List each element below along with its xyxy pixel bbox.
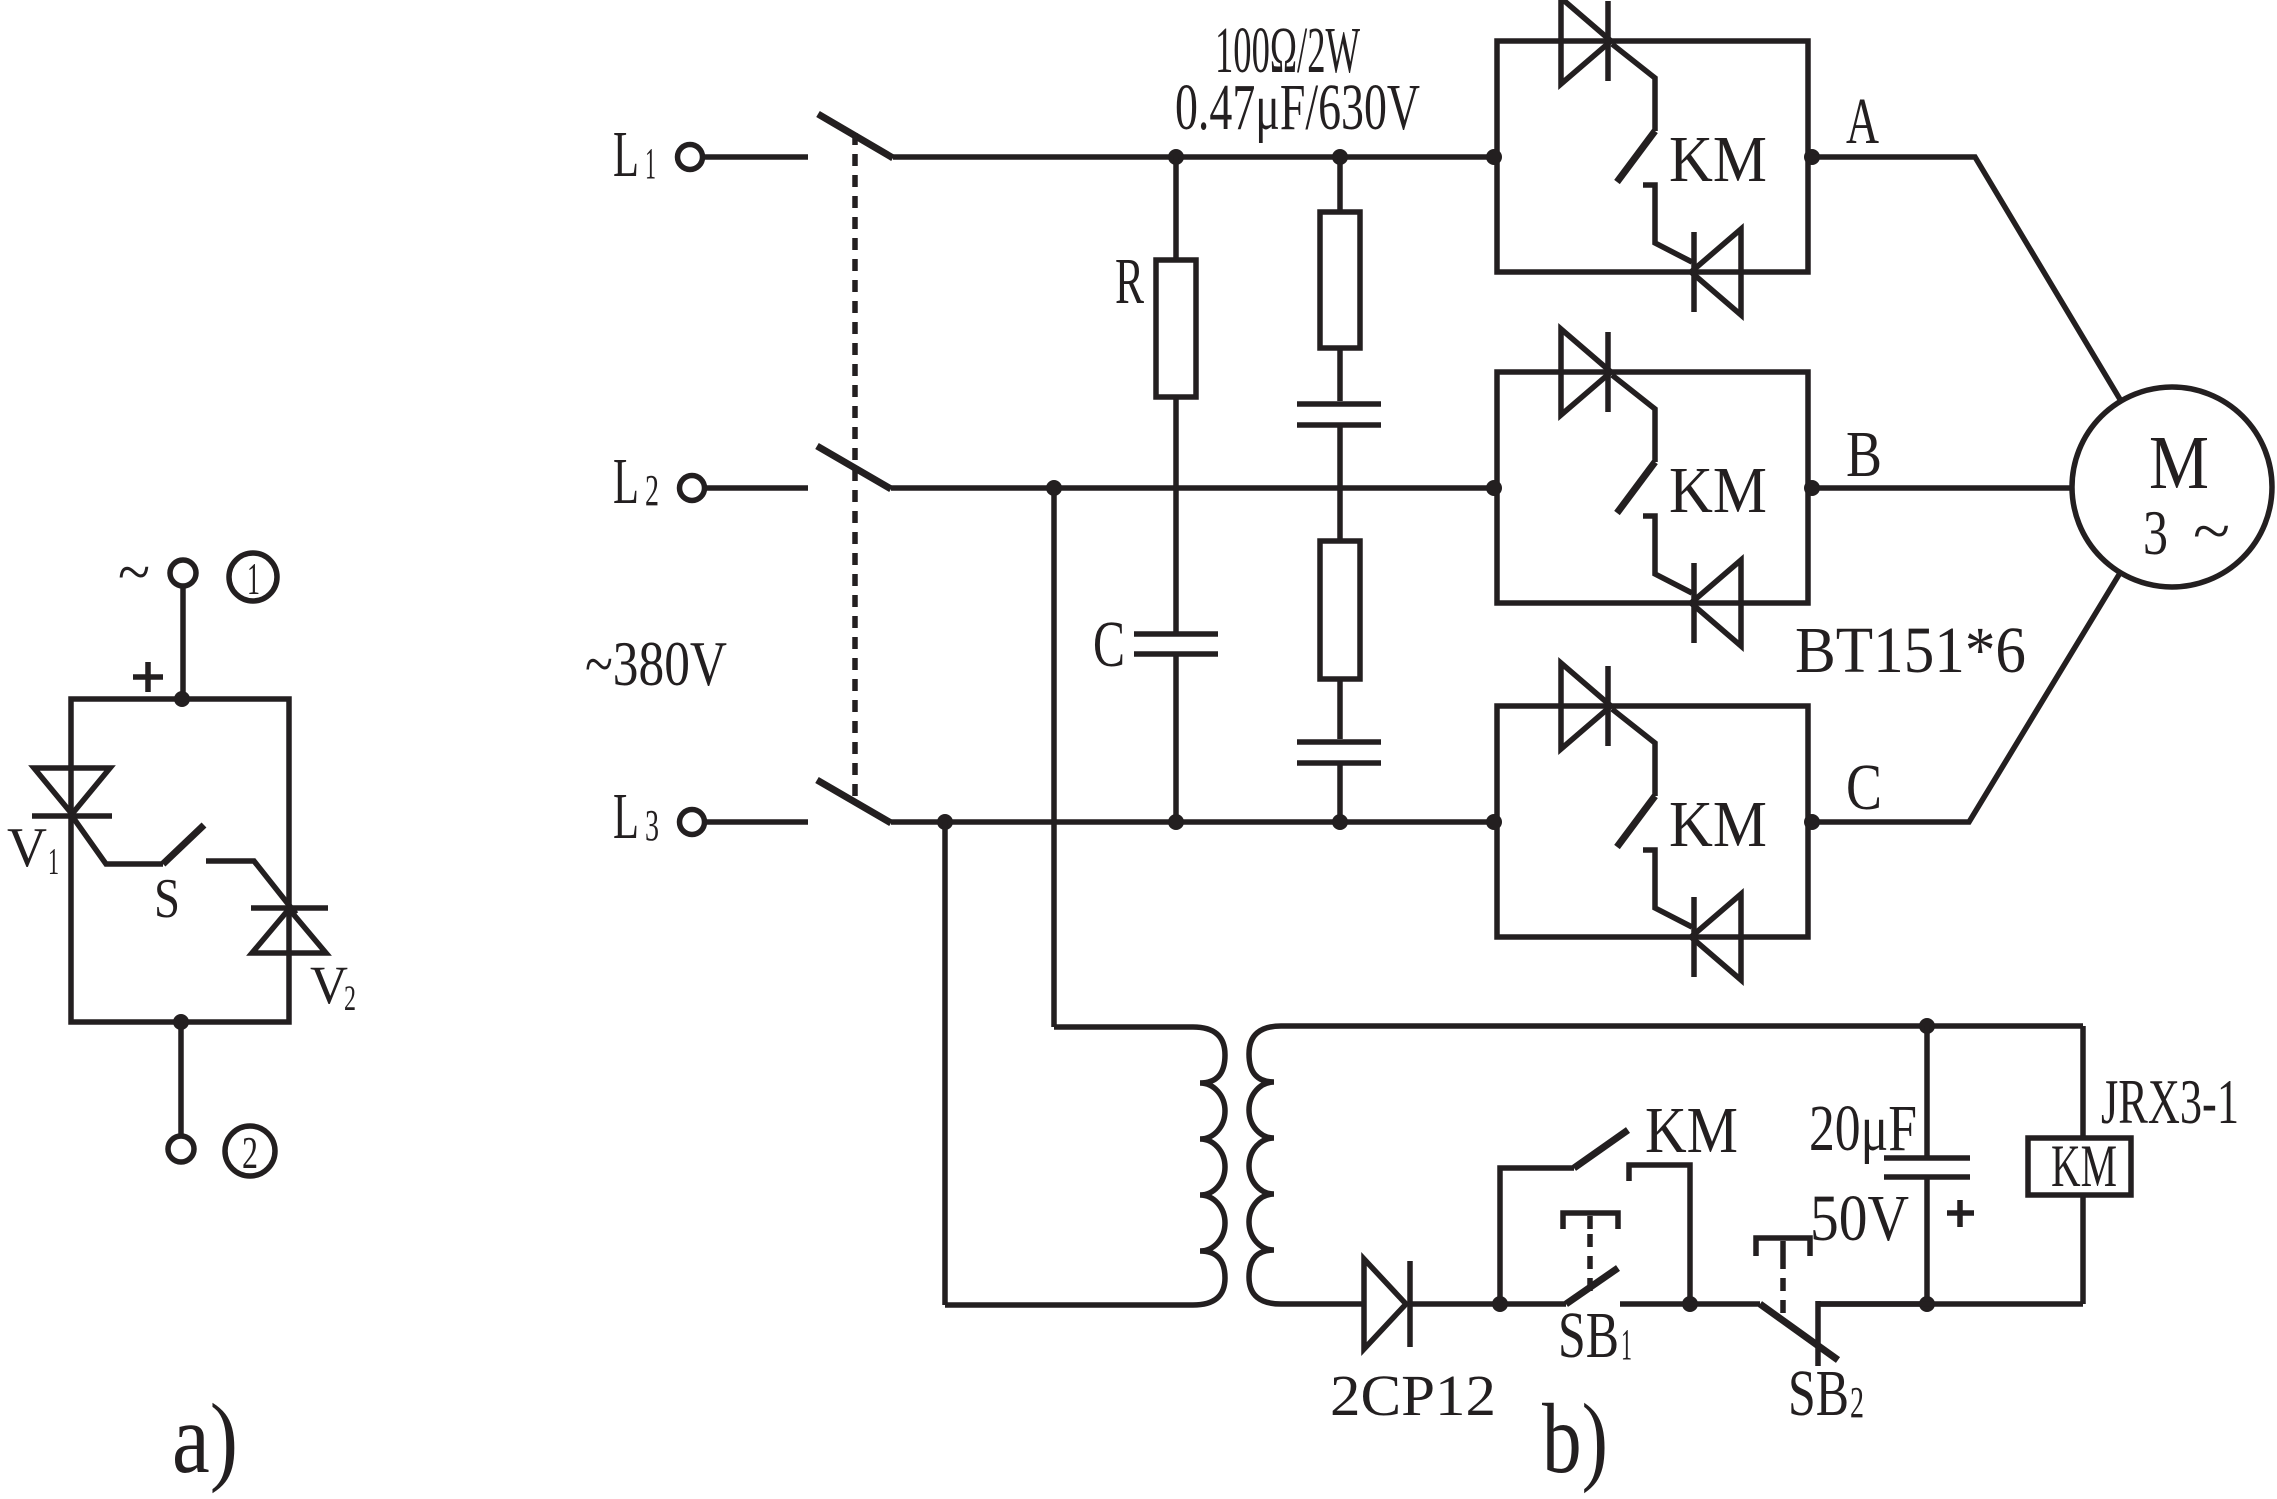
node dot aux branch left — [1492, 1296, 1508, 1312]
svg-text:~: ~ — [2193, 496, 2230, 566]
thyristor VT5 forward — [1561, 663, 1611, 749]
transformer secondary winding and control top rail — [1249, 1026, 2083, 1304]
relay coil KM box — [2028, 1133, 2131, 1199]
svg-text:2CP12: 2CP12 — [1330, 1363, 1496, 1428]
svg-text:1: 1 — [1621, 1320, 1632, 1369]
terminal 2 circle — [168, 1136, 194, 1162]
wire L1 switch to block A — [893, 154, 1497, 160]
wire terminal1 to box top — [180, 586, 186, 699]
label L2 — [613, 445, 659, 518]
svg-text:KM: KM — [1669, 454, 1767, 527]
thyristor V2 — [251, 908, 328, 953]
svg-text:0.47μF/630V: 0.47μF/630V — [1175, 71, 1420, 144]
node dot block C left — [1486, 814, 1502, 830]
thyristor VT1 forward — [1561, 0, 1611, 84]
node dot block B left — [1486, 480, 1502, 496]
svg-text:b): b) — [1542, 1383, 1608, 1494]
switch QS pole 3 blade — [817, 780, 891, 823]
terminal L1 circle — [678, 145, 703, 170]
svg-text:20μF: 20μF — [1809, 1092, 1917, 1165]
label 3~ — [2143, 496, 2230, 568]
wire diode to SB1 — [1408, 1301, 1566, 1307]
node dot cap top — [1919, 1018, 1935, 1034]
node dot branch2-L3 — [1332, 814, 1348, 830]
svg-text:~: ~ — [118, 536, 150, 607]
capacitor 20uF electrolytic — [1884, 1026, 1970, 1304]
wire VT3 gate — [1612, 375, 1655, 462]
switch linkage dashed line — [852, 133, 858, 797]
capacitor C plates — [1134, 634, 1218, 654]
svg-text:2: 2 — [645, 466, 659, 515]
node dot branch1-L3 — [1168, 814, 1184, 830]
node dot L2 transformer tap — [1046, 480, 1062, 496]
svg-text:1: 1 — [645, 139, 656, 188]
switch QS pole 2 blade — [817, 446, 891, 489]
node junction dot top — [174, 691, 190, 707]
wire box loop — [71, 699, 289, 1022]
wire KM contact lower lead A — [1643, 185, 1692, 262]
thyristor VT6 reverse — [1691, 894, 1741, 980]
wire KM contact lower lead C — [1643, 850, 1692, 927]
svg-text:R: R — [1115, 245, 1144, 318]
wire L3 terminal to switch — [706, 819, 808, 825]
svg-text:M: M — [2149, 421, 2209, 505]
contact KM blade B — [1617, 462, 1655, 513]
thyristor V1 — [32, 768, 112, 816]
label SB1 — [1558, 1299, 1632, 1372]
node dot cap bottom — [1919, 1296, 1935, 1312]
label V2 — [310, 955, 356, 1018]
switch S blade — [163, 825, 204, 864]
node dot aux branch right — [1682, 1296, 1698, 1312]
thyristor block phase A — [1486, 0, 1820, 315]
svg-text:3: 3 — [2143, 498, 2168, 568]
pushbutton SB1 — [1563, 1213, 1618, 1304]
svg-text:2: 2 — [344, 978, 356, 1018]
thyristor VT3 forward — [1561, 329, 1611, 415]
wire riser L3 to transformer primary bottom — [942, 822, 948, 1305]
terminal L3 circle — [680, 810, 705, 835]
node dot L1-RC branch — [1332, 149, 1348, 165]
svg-text:V: V — [310, 955, 348, 1015]
pushbutton SB2 — [1756, 1238, 1927, 1366]
wire SB1 to SB2 — [1620, 1301, 1760, 1307]
svg-text:C: C — [1846, 751, 1882, 824]
node dot L1-R branch — [1168, 149, 1184, 165]
svg-text:A: A — [1846, 85, 1879, 158]
svg-text:KM: KM — [1645, 1094, 1738, 1167]
thyristor VT2 reverse — [1691, 229, 1741, 315]
wire L1 terminal to switch — [704, 154, 808, 160]
svg-text:V: V — [7, 817, 47, 879]
label + polarity — [133, 662, 163, 692]
wire V1 gate — [72, 816, 163, 864]
svg-text:~380V: ~380V — [585, 628, 727, 699]
wire riser L2 to transformer primary top — [1051, 488, 1057, 1027]
label L1 — [613, 118, 656, 191]
wire snubber branch 2 vertical — [1337, 157, 1343, 822]
wire block A loop — [1497, 41, 1808, 272]
svg-text:S: S — [154, 868, 180, 930]
svg-text:L: L — [613, 118, 639, 191]
thyristor block phase B — [1486, 329, 1820, 646]
switch QS pole 1 blade — [818, 114, 893, 158]
terminal 1 circle — [170, 560, 196, 586]
svg-text:50V: 50V — [1810, 1182, 1909, 1255]
resistor R — [1156, 260, 1196, 397]
label V1 — [7, 817, 59, 883]
svg-text:B: B — [1846, 418, 1882, 491]
svg-text:SB: SB — [1788, 1357, 1849, 1430]
capacitor snubber 2 lower plates — [1297, 742, 1381, 763]
node dot L3 transformer tap — [937, 814, 953, 830]
contact KM blade A — [1617, 131, 1655, 182]
svg-text:C: C — [1093, 608, 1125, 681]
node dot block A right — [1804, 149, 1820, 165]
label SB2 — [1788, 1357, 1864, 1430]
node junction dot bottom — [173, 1014, 189, 1030]
node label circled 2 — [225, 1126, 275, 1178]
svg-text:KM: KM — [1669, 123, 1767, 196]
thyristor block phase C — [1486, 663, 1820, 980]
svg-text:1: 1 — [48, 841, 59, 883]
wire KM contact lower lead B — [1643, 516, 1692, 593]
wire L3 switch to block C — [891, 819, 1497, 825]
svg-text:1: 1 — [247, 553, 260, 604]
terminal L2 circle — [680, 476, 705, 501]
svg-text:3: 3 — [645, 801, 659, 850]
contact KM blade C — [1617, 796, 1655, 847]
wire relay branch — [1818, 1026, 2083, 1304]
wire phase C to motor — [1812, 573, 2120, 822]
svg-text:L: L — [613, 780, 639, 853]
node dot block C right — [1804, 814, 1820, 830]
svg-text:KM: KM — [1669, 788, 1767, 861]
svg-text:SB: SB — [1558, 1299, 1619, 1372]
motor M circle — [2072, 387, 2272, 587]
resistor snubber 2 upper — [1320, 212, 1360, 348]
capacitor snubber 2 upper plates — [1297, 404, 1381, 425]
svg-text:KM: KM — [2051, 1133, 2117, 1199]
wire L2 terminal to switch — [706, 485, 808, 491]
wire VT5 gate — [1612, 709, 1655, 796]
svg-text:BT151*6: BT151*6 — [1795, 614, 2026, 687]
transformer primary winding — [945, 1027, 1225, 1305]
svg-text:L: L — [613, 445, 639, 518]
wire VT1 gate — [1612, 44, 1655, 131]
label + polarity cap — [1947, 1200, 1974, 1227]
svg-text:2: 2 — [1850, 1378, 1864, 1427]
svg-text:a): a) — [172, 1383, 238, 1494]
contact KM aux self-hold — [1500, 1130, 1690, 1304]
thyristor VT4 reverse — [1691, 560, 1741, 646]
node label circled 1 — [229, 553, 277, 604]
node dot block A left — [1486, 149, 1502, 165]
wire V2 gate — [206, 861, 296, 914]
node dot block B right — [1804, 480, 1820, 496]
svg-text:JRX3-1: JRX3-1 — [2101, 1066, 2239, 1137]
wire block B loop — [1497, 372, 1808, 603]
wire phase A to motor — [1812, 157, 2121, 401]
label L3 — [613, 780, 659, 853]
svg-text:2: 2 — [242, 1127, 258, 1178]
wire phase B to motor — [1812, 485, 2072, 491]
diode 2CP12 — [1364, 1259, 1410, 1349]
wire L2 switch to block B — [891, 485, 1497, 491]
resistor snubber 2 lower — [1320, 541, 1360, 679]
wire block C loop — [1497, 706, 1808, 937]
wire box bottom to terminal 2 — [178, 1022, 184, 1136]
wire snubber branch 1 vertical — [1173, 157, 1179, 822]
